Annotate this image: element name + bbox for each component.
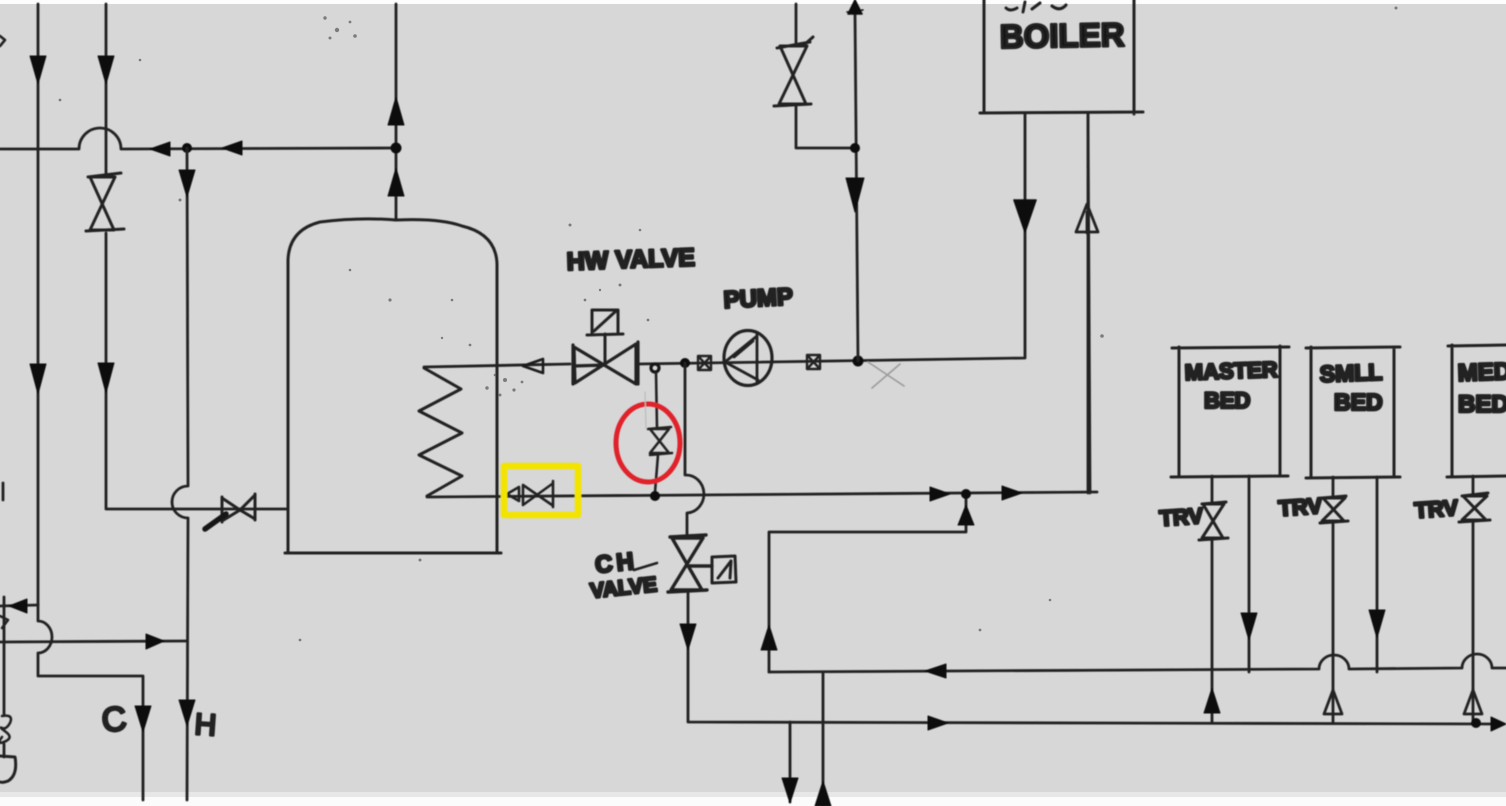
svg-text:BED: BED [1204, 388, 1250, 413]
wire: H pipe vertical with hop over cold feed [172, 148, 188, 800]
svg-text:BOILER: BOILER [999, 16, 1124, 55]
arrow down on second pipe (middle) [98, 363, 114, 393]
wire: master TRV pipe [1211, 476, 1214, 722]
label: cut-off GAS text fragment [1006, 2, 1066, 12]
arrow up on vent (below junction) [388, 168, 404, 196]
wire: return line takeoff from coil return [769, 494, 966, 672]
radiator: SMLL BED box [1306, 347, 1400, 478]
node: small dot tee to bypass valve [651, 364, 659, 372]
arrow down on far-left pipe (middle) [30, 364, 46, 394]
arrow up outline on med TRV pipe [1464, 690, 1482, 714]
arrow down on smll return pipe [1369, 610, 1385, 638]
arrow left on edge branch [9, 599, 27, 613]
svg-text:BED: BED [1334, 389, 1383, 415]
wire: smll TRV pipe [1332, 477, 1335, 722]
valve: HW motorised valve [573, 342, 638, 384]
svg-text:HW VALVE: HW VALVE [566, 244, 695, 276]
svg-text:TRV: TRV [1414, 495, 1460, 523]
valve: on top branch [774, 37, 813, 106]
valve: CH motorised valve [668, 535, 712, 592]
node: junction dot of cold main on pump line [853, 356, 864, 367]
arrow up on vent (above junction) [388, 97, 404, 125]
svg-text:MED: MED [1457, 358, 1506, 387]
arrow down on downstairs drop [782, 778, 798, 803]
arrow right at right edge of supply line [1491, 717, 1506, 731]
arrow right on bottom supply line [928, 716, 948, 730]
arrow up on master TRV pipe [1204, 688, 1220, 713]
stray pencil ghost [645, 392, 646, 428]
wire: med TRV pipe [1472, 476, 1475, 722]
left edge cut-off symbol: figure 8 [0, 716, 11, 743]
valve: med TRV [1459, 493, 1490, 522]
wire: coil top pipe to HW valve [424, 364, 570, 367]
arrow down on boiler flow pipe [1014, 200, 1036, 232]
arrow left on top line (2) [222, 141, 242, 155]
stray pencil scribble [868, 362, 904, 388]
wire: master return pipe [1248, 476, 1251, 672]
wire: cold feed horizontal to cylinder [106, 508, 288, 511]
fitting: union square right of pump [807, 355, 820, 369]
arrow down on H pipe near bottom [179, 700, 195, 726]
arrow down on H pipe below top junction [179, 170, 195, 197]
arrow up outline on smll TRV pipe [1324, 690, 1342, 714]
wire: far-left vertical pipe [37, 4, 40, 604]
arrow down on second pipe (top) [98, 56, 114, 84]
valve: master TRV [1199, 502, 1228, 540]
valve on second pipe [86, 173, 124, 231]
svg-text:H: H [194, 708, 218, 742]
wire: second vertical pipe (cold feed) [105, 4, 108, 508]
wire: horizontal line to H pipe [0, 641, 187, 642]
node: junction dot below bypass valve [650, 491, 660, 501]
svg-text:SMLL: SMLL [1319, 359, 1382, 387]
node: junction dot on vent [391, 143, 402, 154]
wire: left edge vertical pipe [3, 483, 4, 757]
wire: top-left horizontal line with hop [0, 128, 396, 149]
arrow down on far-left pipe (top) [30, 56, 46, 84]
node: junction dot on coil return [961, 489, 971, 499]
arrow down on master return pipe [1241, 613, 1257, 640]
pump: circle with impeller triangle [724, 331, 772, 386]
yellow box highlight [504, 466, 578, 515]
left edge cut-off arrow marks [0, 616, 8, 628]
arrow up tick at very top of that main [847, 0, 863, 14]
arrow left on top line (1) [150, 142, 170, 156]
stray pencil dash after CH [634, 563, 657, 570]
wire: CH pipe below valve down and right [688, 592, 1500, 724]
arrow up on downstairs return [815, 781, 831, 806]
svg-text:C: C [100, 700, 128, 740]
boiler: box [980, 0, 1143, 114]
wire: CH branch vertical with hop over return line [685, 363, 704, 536]
wire: return riser from downstairs [822, 672, 825, 806]
wire: boiler return pipe lower part [1087, 114, 1090, 493]
arrow up under junction [958, 505, 974, 525]
arrow right on that line [146, 634, 164, 649]
node: junction dot at H pipe top [182, 143, 192, 153]
cylinder: hot water tank [285, 219, 501, 553]
radiator: MED BED box (cut at edge) [1447, 345, 1506, 477]
valve: smll TRV [1320, 496, 1348, 523]
valve: bypass valve inside red circle [648, 373, 672, 492]
arrow left on coil top pipe [523, 359, 543, 373]
arrow left on upstairs return [925, 664, 946, 678]
actuator square of CH valve [712, 556, 736, 583]
left edge cut-off symbol: fan shape [0, 756, 16, 782]
actuator square of HW valve [587, 310, 623, 363]
arrow right on coil return line (2) [1002, 486, 1022, 500]
valve: gate valve on cold feed [222, 494, 255, 522]
red circle highlight [616, 404, 680, 482]
wire: vertical main from top to pump line [855, 14, 858, 361]
paper noise specks [59, 7, 1398, 642]
wire: smll return pipe [1376, 477, 1379, 672]
fitting: union square left of pump [698, 356, 711, 370]
arrow down on C pipe [135, 706, 151, 732]
wire: far-left pipe hop over C/H crossover [38, 604, 143, 800]
coil: heat exchanger zigzag [419, 368, 462, 496]
svg-text:BED: BED [1458, 391, 1506, 418]
svg-text:PUMP: PUMP [723, 283, 794, 314]
svg-text:TRV: TRV [1278, 493, 1324, 521]
node: junction dot tee to CH branch [680, 358, 690, 368]
node: junction dot where branch meets main [850, 143, 860, 153]
wire: supply drop to downstairs [789, 722, 792, 802]
valve: gate valve inside yellow box [507, 481, 553, 507]
arrow up outline on boiler return pipe [1076, 204, 1098, 233]
node: junction dot on supply at med pipe [1471, 718, 1481, 728]
arrow up on return riser x769 [761, 625, 777, 650]
svg-text:TRV: TRV [1159, 503, 1205, 531]
arrow down on CH drop [680, 624, 696, 650]
arrow down on vertical main [846, 178, 864, 212]
radiator: MASTER BED box [1171, 346, 1289, 477]
wire: left branch to edge with left arrow [0, 605, 38, 606]
wire: cylinder vent pipe vertical [395, 4, 398, 220]
wire: upstairs return line with hops [769, 654, 1506, 672]
wire: branch with valve joining main [796, 4, 855, 148]
svg-text:MASTER: MASTER [1184, 357, 1278, 385]
svg-text:CH: CH [594, 548, 639, 579]
wire: pump line from HW valve to boiler [638, 114, 1025, 364]
wire: coil bottom pipe long return line to boiler [427, 114, 1097, 497]
arrow right on coil return line (1) [930, 487, 950, 501]
